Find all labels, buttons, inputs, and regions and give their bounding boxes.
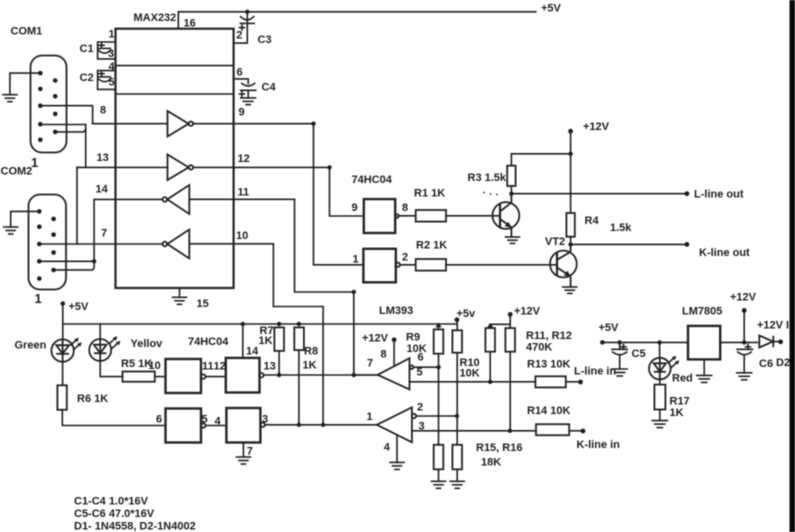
node L-line out terminal [685,191,690,196]
svg-text:5: 5 [417,367,423,379]
capacitor C4 [239,83,255,98]
svg-text:+12V: +12V [730,292,757,304]
wire yellow LED top [99,324,101,339]
gate U2F 74HC04 [226,408,260,443]
svg-text:74HC04: 74HC04 [188,336,229,348]
wire +5V drop [62,304,64,324]
node R7 bottom junction [277,373,281,377]
svg-text:15: 15 [197,298,209,310]
svg-text:13: 13 [97,152,109,164]
svg-text:L-line out: L-line out [694,189,744,201]
op-amp U3B comparator [377,407,412,442]
svg-text:C1: C1 [80,43,94,55]
svg-text:C4: C4 [262,82,277,94]
svg-text:12: 12 [238,153,250,165]
wire comp1 output [354,374,378,376]
wire pin10 row [189,243,273,245]
connector COM1 pins left [38,71,43,142]
wire R2 to VT2 base [446,264,557,266]
svg-text:6: 6 [237,67,243,79]
svg-text:11: 11 [238,187,250,199]
op-amp U3A comparator [378,358,410,389]
svg-text:470K: 470K [526,342,552,354]
ground LM7805 [697,375,712,382]
capacitor C1 [99,43,111,53]
svg-text:2: 2 [417,402,423,414]
svg-text:K-line in: K-line in [577,439,621,451]
svg-text:R11, R12: R11, R12 [526,330,572,342]
resistor R5 [123,372,155,382]
resistor R16 [452,445,462,470]
svg-text:+5V: +5V [599,322,620,334]
node LM393 +12V terminal [392,337,397,342]
diode D2 [759,336,773,348]
svg-text:11: 11 [202,361,214,373]
svg-text:R17: R17 [670,396,690,408]
gate U2D output bubble [259,373,263,377]
node C6 junction [742,340,746,344]
node K-line out terminal [685,242,690,247]
svg-text:7: 7 [367,358,373,370]
svg-text:8: 8 [402,202,408,214]
wire COM2 rx b [54,261,95,270]
regulator U4 LM7805 [688,326,720,360]
svg-text:Green: Green [15,340,47,352]
node pin9 junction [311,122,315,126]
wire comp1 pin6 [413,366,438,368]
op-amp U1 MAX232 box [116,29,234,288]
capacitor C3 [240,12,255,30]
ground COM2 [4,227,18,234]
wire pin15 stub [179,288,181,297]
svg-text:L-line in: L-line in [574,366,616,378]
resistor R14 [536,424,569,435]
wire R12 top stub [509,314,511,328]
resistor R15 [434,445,444,470]
node +5v terminal small [455,317,460,322]
ground comp2 pin4 [390,462,404,469]
noise dots [483,192,498,196]
transistor VT2 [550,244,577,286]
wire green LED top [62,324,64,339]
connector COM1 pins right [53,78,58,134]
svg-text:5: 5 [202,414,208,426]
svg-text:4: 4 [109,61,116,73]
svg-text:13: 13 [264,361,276,373]
node VT1 collector junction [509,192,513,196]
wire +5V power line [602,341,688,343]
gate U2A 74HC04 [364,199,395,233]
svg-text:COM2: COM2 [1,166,33,178]
node red LED junction [657,340,661,344]
comp1 pin6 bubble [410,365,414,369]
ground C6 [737,373,752,380]
node C3 junction dot [245,10,249,14]
wire pin11 route [295,199,354,292]
svg-text:5: 5 [109,77,115,89]
capacitor C2 bracket [98,71,116,90]
svg-text:7: 7 [247,446,253,458]
LED red arrows [668,356,679,368]
svg-text:R6 1K: R6 1K [77,393,108,405]
wire R14 to K-line in [569,430,583,432]
wire gateD out to comp2 [265,424,377,426]
inverter MAX232 receiver2 [163,230,190,259]
svg-text:10: 10 [149,360,161,372]
svg-text:Red: Red [672,373,693,385]
wire R9 to R15 [438,354,440,445]
wire R15 gnd stub [438,469,440,481]
capacitor C1 bracket [98,42,116,59]
transistor VT1 emitter arrow [505,222,512,228]
svg-text:C1-C4 1.0*16V: C1-C4 1.0*16V [74,496,149,508]
wire R13 to L-line in [566,381,581,383]
svg-text:3: 3 [262,414,268,426]
gate U2E 74HC04 [166,409,202,443]
wire pin13 drop [76,167,78,244]
svg-text:14: 14 [246,346,259,358]
wire +5V rail [63,323,457,325]
svg-text:9: 9 [239,107,245,119]
gate U2D 74HC04 [226,358,260,393]
svg-text:1: 1 [367,411,373,423]
resistor R11 [485,328,495,352]
wire R3 top stub [510,154,512,166]
gate U2F output bubble [261,423,265,427]
wire R10 to R16 [456,353,458,445]
ground C5 [612,369,627,376]
node rail R7 junction [277,322,281,326]
connector COM2 pins left [37,209,42,281]
node +12V divider terminal [508,312,513,317]
wire yellow LED to R5 [100,361,122,377]
node +12V IN terminal [778,339,783,344]
resistor R13 [535,376,565,387]
svg-text:C5-C6 47.0*16V: C5-C6 47.0*16V [74,508,155,520]
resistor R6 [57,385,66,410]
node comp1 out junction top [352,290,356,294]
wire pin7 row to COM2 [39,243,162,245]
ground C4 [241,98,256,105]
wire comp2 pin3 [412,430,536,432]
svg-text:C2: C2 [80,72,94,84]
wire pin10 route [273,244,323,425]
node +5V rail terminal [61,301,66,306]
node pin2 divider junction [455,414,459,418]
svg-text:COM1: COM1 [11,26,43,38]
svg-text:Yellov: Yellov [131,338,164,350]
wire LM7805 gnd stub [703,359,705,375]
wire COM1 to pin8 [40,106,92,124]
svg-text:1.5k: 1.5k [610,222,632,234]
svg-text:C5: C5 [632,348,646,360]
wire R7 bottom stub [278,351,280,375]
node rail R8 junction [297,322,301,326]
svg-text:1K: 1K [303,360,317,372]
wire pin12 drop to gate1 [330,167,364,216]
ground R17 [652,421,667,428]
wire MAX232 divider1 [116,65,234,67]
wire LM7805 output [720,341,757,343]
svg-text:R3 1.5k: R3 1.5k [468,172,507,184]
wire pin9 out [193,123,313,125]
inverter MAX232 receiver1 [163,185,190,214]
svg-text:R15, R16: R15, R16 [476,442,522,454]
capacitor C2 [99,71,111,82]
wire COM1 tx b [55,130,85,132]
svg-text:10: 10 [236,230,248,242]
svg-text:1K: 1K [670,407,684,419]
ground pin15 [173,297,187,304]
gate U2B 74HC04 [363,249,395,282]
svg-text:MAX232: MAX232 [134,12,177,24]
wire comp1 pin5 [410,381,536,383]
ground COM1 [3,95,17,102]
svg-text:10K: 10K [407,343,427,355]
wire R4 bottom stub [570,237,572,245]
wire L-line out [511,193,687,195]
ground VT2 [563,287,577,293]
transistor VT2 emitter arrow [564,271,571,277]
gate U2C output bubble [201,374,205,378]
ground gateD pin7 [236,457,250,464]
node comp2 out junction [321,423,325,427]
wire green LED to R6 [62,362,64,386]
svg-text:3: 3 [419,421,425,433]
node rail pin14 junction [241,322,245,326]
resistor R4 [566,213,574,237]
wire pin14 row [94,199,162,261]
wire pin13 row [77,166,168,168]
svg-text:2: 2 [236,30,242,42]
wire rail end drop [353,324,355,375]
node pin6 divider junction [436,365,440,369]
svg-text:6: 6 [156,414,162,426]
svg-text:3: 3 [108,48,114,60]
node R4 feed junction [568,152,572,156]
svg-text:+5V: +5V [541,3,562,15]
wire gateC to gateD [206,425,227,427]
svg-text:4: 4 [384,442,391,454]
svg-text:8: 8 [381,349,387,361]
wire R8 drop [298,350,300,425]
node VT2 collector junction [568,242,572,246]
connector COM2 pins right [51,217,56,273]
wire R10 top stub [456,320,458,331]
wire R17 gnd stub [659,410,661,421]
node K-line in terminal [581,429,586,434]
capacitor C6 [737,344,753,372]
wire gateA to gateB [206,376,226,378]
wire LM393 pin8 stub [393,340,395,366]
node comp1 out junction [352,373,356,377]
node R11 pin5 junction [488,380,492,384]
resistor R9 [434,329,444,353]
svg-text:10K: 10K [460,367,480,379]
node +12V out terminal [742,308,747,313]
capacitor C5 [612,342,627,369]
svg-text:+5V: +5V [69,301,90,313]
svg-text:1K: 1K [259,335,273,347]
svg-text:R1 1K: R1 1K [414,188,445,200]
ground R16 [450,481,464,488]
wire pin16 stub [177,12,179,29]
node C5 junction [618,340,622,344]
buffer MAX232 driver1 [168,111,194,137]
wire comp2 pin4 stub [396,435,398,463]
svg-text:R8: R8 [304,346,318,358]
wire COM2 rx a [39,260,94,262]
svg-text:74HC04: 74HC04 [352,174,393,186]
svg-text:1: 1 [353,254,359,266]
wire COM1 ground lead [10,73,40,95]
node COM2 rx junction [92,259,96,263]
wire gate1 to R1 [399,215,416,217]
wire pin9 drop to gate2 [314,124,364,265]
gate U2A output bubble [395,214,398,217]
wire K-line out [571,243,687,245]
LED green arrows [71,338,82,350]
LED yellow arrows [109,336,120,348]
wire gate2 to R2 [400,264,416,266]
svg-text:1: 1 [109,29,115,41]
wire comp1 out drop [353,292,355,375]
wire R1 to VT1 base [446,215,500,217]
node pin12 junction [327,165,331,169]
wire comp2 pin2 [416,415,457,417]
wire gateB pin14 stub [242,324,244,358]
ground R15 [432,481,446,488]
wire pin11 row [189,198,294,200]
wire R9 top stub [438,324,440,329]
wire R6 to gate C [62,410,165,426]
connector COM2 DB9 outline [29,195,67,290]
wire COM2 ground lead [11,211,40,227]
wire COM1 tx a [40,125,85,168]
wire R12 to pin3 [509,352,511,431]
wire R11 top stub [489,324,491,328]
resistor R7 [274,327,284,351]
LED D red [649,358,671,380]
svg-text:K-line out: K-line out [699,247,750,259]
wire gateB out to comp1 [264,374,378,376]
svg-text:8: 8 [100,105,106,117]
svg-text:R13 10K: R13 10K [527,359,570,371]
wire MAX232 divider2 [116,93,234,95]
svg-text:LM7805: LM7805 [682,306,722,318]
wire +12V drop to R4 [570,131,572,213]
node +5V power terminal [600,340,605,345]
resistor R3 [507,166,515,186]
wire pin2 bracket [234,23,247,43]
gate U2B output bubble [396,263,400,267]
wire +5V top rail [178,11,536,13]
svg-text:R9: R9 [406,332,420,344]
resistor R1 [416,210,446,222]
wire D2 to terminal [773,341,781,343]
svg-text:9: 9 [352,202,358,214]
svg-text:+12V: +12V [362,333,389,345]
svg-text:12: 12 [214,361,226,373]
svg-text:C6: C6 [759,358,773,370]
svg-text:+12V: +12V [583,121,610,133]
node +12V terminal [568,129,573,134]
node L-line in terminal [578,380,583,385]
buffer MAX232 driver2 [168,155,194,181]
svg-text:LM393: LM393 [379,305,413,317]
LED D yellow [89,339,111,361]
svg-text:R4: R4 [585,215,600,227]
svg-text:+5v: +5v [457,308,477,320]
wire +12V riser [743,310,745,342]
svg-text:2: 2 [402,252,408,264]
wire R5 to gate A [155,376,166,378]
wire pin6 stub [234,79,249,84]
LED D green [51,339,73,361]
svg-text:+12V: +12V [514,306,541,318]
svg-text:14: 14 [96,184,109,196]
resistor R12 [505,328,515,352]
comp2 pin2 bubble [412,414,416,418]
resistor R17 [654,385,665,410]
wire R11 R12 top rail [490,323,510,325]
resistor R10 [452,330,462,352]
wire R16 gnd stub [456,469,458,481]
wire pin8 row [93,123,168,125]
wire R3 top feed [511,153,570,155]
svg-text:+12V IN: +12V IN [757,320,795,332]
svg-text:R2 1K: R2 1K [416,240,447,252]
svg-text:VT2: VT2 [545,236,565,248]
svg-text:7: 7 [101,228,107,240]
svg-text:C3: C3 [258,34,272,46]
wire R9 R10 top rail [435,323,441,328]
svg-text:R14 10K: R14 10K [527,405,570,417]
wire red LED top [659,342,661,358]
ground VT1 [506,237,520,243]
wire gateD pin7 stub [242,443,244,458]
node pin3 R12 junction [508,429,512,433]
wire pin12 out [193,166,329,168]
transistor VT1 [493,194,520,237]
svg-text:1: 1 [35,291,42,306]
gate U2E output bubble [201,423,205,427]
border bar right edge [790,0,795,532]
node R8 bottom junction [297,423,301,427]
svg-text:18K: 18K [481,457,501,469]
resistor R8 [294,327,304,350]
wire R3 bottom stub [510,186,512,194]
gate U2C 74HC04 [166,359,202,393]
svg-text:D2: D2 [776,357,790,369]
wire R11 bottom stub [489,352,491,382]
connector COM1 DB9 outline [31,56,67,153]
svg-text:D1- 1N4558, D2-1N4002: D1- 1N4558, D2-1N4002 [74,521,196,532]
wire red LED to R17 [659,379,661,385]
resistor R2 [416,259,446,271]
